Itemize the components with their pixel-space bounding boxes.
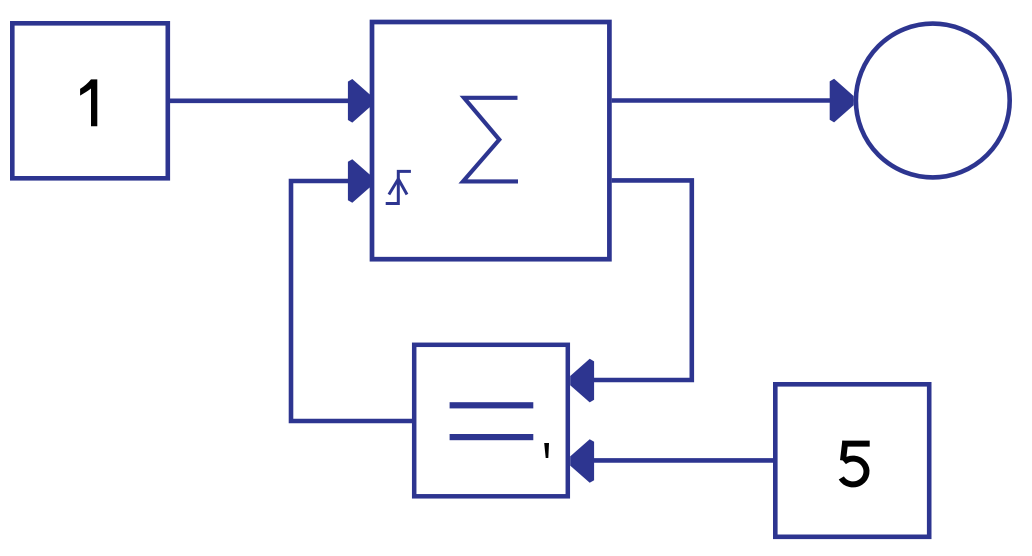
constant block "5" bbox=[775, 384, 929, 537]
trigger port icon (rising edge) bbox=[386, 171, 411, 203]
relational operator block bbox=[414, 345, 568, 497]
scope circle bbox=[856, 24, 1010, 178]
wire: relational block output back up to sum trigger input bbox=[291, 159, 412, 421]
sum block U1 bbox=[372, 22, 609, 259]
wire: sum block tap down to relational block input 1 bbox=[570, 180, 692, 402]
black prime mark bbox=[544, 443, 549, 458]
constant block "1" bbox=[12, 23, 168, 178]
wire: "1" block to sum block input 1 bbox=[168, 79, 372, 123]
equals symbol inside relational block bbox=[450, 402, 534, 440]
sigma symbol inside sum block bbox=[463, 98, 518, 182]
digit 1 label bbox=[80, 79, 97, 126]
digit 5 label bbox=[841, 441, 869, 484]
wire: sum block output to scope circle bbox=[612, 79, 854, 123]
wire: "5" block to relational block input 2 bbox=[570, 439, 773, 483]
